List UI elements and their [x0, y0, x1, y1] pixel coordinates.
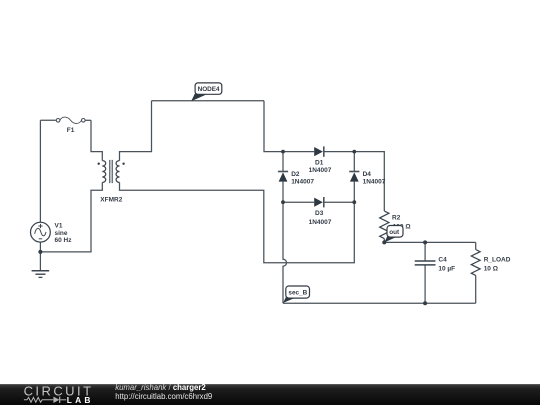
wire D2 bottom lead	[282, 182, 284, 203]
svg-text:R2: R2	[392, 215, 401, 222]
svg-text:D1: D1	[315, 159, 324, 166]
diode D1	[314, 146, 324, 156]
svg-text:LAB: LAB	[67, 395, 94, 405]
junction bridge bottom left	[281, 200, 285, 204]
wire transformer primary bottom to V1 bottom	[40, 183, 102, 252]
svg-text:R_LOAD: R_LOAD	[484, 256, 511, 263]
wire R_LOAD top lead	[475, 242, 477, 249]
ground	[32, 271, 50, 278]
junction bridge top right	[352, 150, 356, 154]
wire bridge top row to R2	[354, 152, 384, 211]
wire transformer secondary top to NODE4 rail	[120, 101, 152, 161]
wire sec_B vertical with hop over secondary wire	[283, 202, 287, 303]
wire bridge top row D1 anode	[283, 151, 314, 153]
svg-text:1N4007: 1N4007	[309, 219, 332, 226]
transformer XFMR2	[102, 160, 119, 183]
wire fuse right lead	[85, 119, 91, 121]
diode D3	[314, 197, 324, 207]
wire NODE4 rail down to bridge	[264, 101, 283, 152]
svg-text:sec_B: sec_B	[288, 290, 307, 297]
svg-text:D3: D3	[315, 210, 324, 217]
wire fuse to transformer primary top	[91, 120, 102, 160]
voltage source V1	[31, 222, 51, 242]
svg-text:kumar_rishank / charger2: kumar_rishank / charger2	[115, 383, 206, 392]
junction out node at R2 bottom	[382, 240, 386, 244]
svg-text:V1: V1	[55, 223, 63, 230]
wire NODE4 top rail	[152, 100, 265, 102]
wire bottom sec_B rail	[283, 302, 476, 304]
junction V1 bottom node	[38, 250, 42, 254]
logo doodle wire with resistor and diode	[24, 397, 66, 403]
svg-text:C4: C4	[438, 256, 447, 263]
wire V1 bottom to junction	[39, 242, 41, 252]
transformer phase dot secondary	[122, 163, 124, 165]
svg-text:60 Hz: 60 Hz	[55, 237, 73, 244]
wire bridge bottom row D3 anode	[283, 201, 314, 203]
wire D4 top lead	[353, 152, 355, 171]
wire transformer secondary bottom	[120, 183, 355, 263]
wire ground stub	[39, 252, 41, 270]
wire out rail	[384, 241, 475, 243]
wire C4 bottom lead	[424, 265, 426, 303]
svg-text:http://circuitlab.com/c6hrxd9: http://circuitlab.com/c6hrxd9	[115, 392, 212, 401]
logo doodle diode triangle	[53, 397, 59, 403]
svg-text:out: out	[389, 229, 400, 236]
svg-text:1N4007: 1N4007	[363, 179, 386, 186]
diode D2	[278, 172, 288, 182]
wire V1 top to fuse row	[39, 120, 41, 222]
transformer phase dot primary	[98, 163, 100, 165]
wire R_LOAD bottom lead	[475, 276, 477, 304]
diode D4	[349, 172, 359, 182]
wire R2 bottom to out rail	[383, 239, 385, 243]
junction bridge bottom right	[352, 200, 356, 204]
svg-text:F1: F1	[67, 127, 75, 134]
junction out rail C4 top	[423, 240, 427, 244]
junction bridge top left	[281, 150, 285, 154]
fuse F1	[56, 117, 85, 123]
wire D2 top lead	[282, 152, 284, 171]
wire D4 bottom lead	[353, 182, 355, 203]
junction bottom rail C4 bottom	[423, 301, 427, 305]
capacitor C4	[415, 261, 436, 265]
resistor R2	[380, 211, 389, 239]
net flag sec_B	[283, 286, 309, 303]
wire C4 top lead	[424, 242, 426, 261]
wire bridge top row D1 cathode to D4	[324, 151, 354, 153]
wire bridge bottom row D3 cathode	[324, 201, 354, 203]
svg-text:D4: D4	[363, 171, 372, 178]
resistor R_LOAD	[471, 250, 480, 276]
svg-text:1N4007: 1N4007	[291, 179, 314, 186]
svg-text:10 µF: 10 µF	[438, 265, 455, 272]
net flag out	[384, 226, 403, 243]
svg-text:D2: D2	[291, 171, 300, 178]
svg-text:NODE4: NODE4	[198, 86, 220, 93]
svg-text:10 Ω: 10 Ω	[484, 265, 498, 272]
wire fuse left lead	[40, 119, 56, 121]
svg-text:1N4007: 1N4007	[309, 167, 332, 174]
svg-text:XFMR2: XFMR2	[100, 196, 122, 203]
net flag NODE4	[191, 83, 222, 101]
